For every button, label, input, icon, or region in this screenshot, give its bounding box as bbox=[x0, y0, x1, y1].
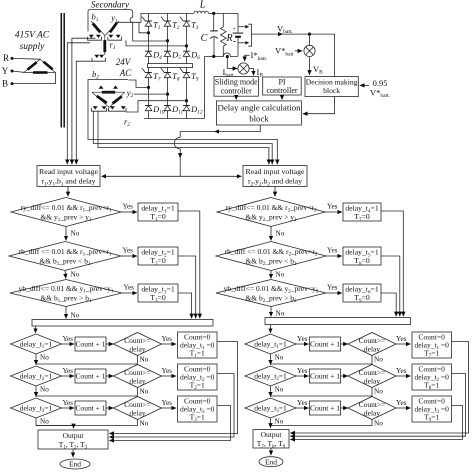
svg-text:No: No bbox=[276, 310, 285, 318]
polarity marks group2 top bbox=[99, 86, 119, 89]
winding r1 bar bbox=[103, 40, 106, 52]
svg-text:Yes: Yes bbox=[327, 247, 338, 255]
wire count no return bbox=[271, 419, 373, 426]
wire row2 to row3 bbox=[35, 386, 37, 397]
svg-text:Count + 1: Count + 1 bbox=[75, 371, 105, 380]
svg-text:Output: Output bbox=[261, 430, 283, 439]
terminator end right bbox=[259, 457, 283, 467]
winding group 1 outline wire bbox=[88, 10, 133, 32]
process delay_t1 bbox=[138, 203, 178, 221]
process count reset bbox=[178, 332, 218, 358]
svg-text:R: R bbox=[225, 33, 232, 44]
junction dot Vbatt bbox=[308, 33, 311, 36]
wire IB output bbox=[249, 69, 253, 76]
wire reset3 feedback bbox=[109, 406, 230, 441]
decision count>=delay bbox=[114, 333, 162, 356]
winding y1 wire bbox=[105, 21, 119, 36]
svg-text:Yes: Yes bbox=[123, 203, 134, 211]
primary winding bar left bbox=[28, 62, 37, 69]
svg-text:Yes: Yes bbox=[63, 367, 74, 375]
wire yes to reset bbox=[396, 375, 411, 377]
terminator end left bbox=[60, 459, 90, 469]
junction dot DC+ bbox=[212, 12, 215, 15]
wire delay_t1 return bbox=[178, 211, 200, 318]
wire row3 to output bbox=[36, 418, 74, 428]
svg-text:No: No bbox=[140, 356, 149, 364]
wire D12 lead bbox=[186, 111, 188, 119]
wire bus after L bbox=[208, 12, 238, 14]
svg-text:supply: supply bbox=[20, 42, 46, 52]
wire yes 2 bbox=[121, 255, 137, 257]
wire rect to row1 right bbox=[270, 325, 272, 333]
wire T2-D5 bbox=[167, 26, 169, 51]
decision delay_t3 bbox=[11, 398, 62, 418]
wire yes to reset bbox=[162, 343, 177, 345]
terminal box group2 right bbox=[109, 108, 127, 111]
process count reset bbox=[412, 364, 452, 390]
svg-text:Count + 1: Count + 1 bbox=[310, 339, 340, 348]
junction dot phase1 top bbox=[147, 31, 150, 34]
wire yes to reset bbox=[162, 375, 177, 377]
svg-text:Read input voltage: Read input voltage bbox=[246, 167, 305, 176]
wire rect to row1 bbox=[35, 326, 37, 333]
battery Vbatt bbox=[233, 13, 244, 56]
wire T9-D12 bbox=[186, 78, 188, 106]
wire I*batt arrow bbox=[245, 55, 250, 61]
winding b1 bar bbox=[93, 23, 101, 32]
wire read2 to d1 bbox=[274, 187, 276, 197]
wire no r3 bbox=[270, 307, 272, 317]
battery connector stubs bbox=[238, 27, 245, 43]
process count+1 bbox=[75, 369, 106, 383]
wire no 3 bbox=[65, 307, 67, 319]
svg-text:Yes: Yes bbox=[396, 367, 407, 375]
wire D6 lead bbox=[186, 56, 188, 63]
process read input voltage 1 bbox=[37, 166, 100, 187]
wire row1 to row2 bbox=[35, 354, 37, 365]
svg-text:No: No bbox=[140, 388, 149, 396]
thyristor T7 bbox=[142, 68, 152, 78]
wire count no return bbox=[36, 419, 138, 426]
wire read1 to d1 bbox=[67, 187, 69, 197]
svg-text:Yes: Yes bbox=[123, 247, 134, 255]
winding group2 bar left bbox=[97, 96, 107, 103]
thyristor T8 bbox=[161, 68, 171, 78]
diode D6 bbox=[183, 51, 190, 56]
svg-text:Yes: Yes bbox=[297, 399, 308, 407]
wire row1 to row2 right bbox=[270, 354, 272, 365]
wire sense r1 bbox=[67, 43, 90, 164]
process count+1 bbox=[310, 369, 341, 383]
wire count no return bbox=[36, 355, 138, 364]
svg-text:R: R bbox=[3, 53, 9, 63]
svg-text:End: End bbox=[69, 460, 81, 469]
svg-text:delay: delay bbox=[129, 408, 145, 417]
svg-text:No: No bbox=[40, 386, 49, 394]
wire to count decision bbox=[341, 407, 348, 409]
wire Y phase bbox=[12, 71, 24, 72]
thyristor T9 bbox=[180, 68, 190, 78]
wire b2 to T7 node bbox=[129, 80, 149, 87]
wire count no return bbox=[271, 355, 373, 364]
svg-text:Yes: Yes bbox=[327, 284, 338, 292]
wire reset4 feedback bbox=[290, 342, 468, 434]
svg-text:Count + 1: Count + 1 bbox=[310, 403, 340, 412]
process count reset bbox=[178, 396, 218, 422]
svg-text:Yes: Yes bbox=[396, 335, 407, 343]
wire delay_t2 return bbox=[178, 256, 196, 318]
process count+1 bbox=[310, 401, 341, 415]
svg-text:delay: delay bbox=[129, 344, 145, 353]
wire Vbatt to multiplier bbox=[309, 34, 311, 45]
wire no 2 bbox=[64, 271, 67, 279]
svg-text:Read input voltage: Read input voltage bbox=[39, 167, 98, 176]
wire row3 to output right bbox=[270, 418, 272, 428]
wire D11 lead bbox=[167, 111, 169, 119]
svg-text:delay: delay bbox=[364, 344, 380, 353]
process count reset bbox=[412, 396, 452, 422]
process delay_t6 bbox=[343, 284, 381, 302]
svg-text:delay: delay bbox=[129, 376, 145, 385]
svg-text:Decision making: Decision making bbox=[306, 78, 358, 87]
wire sense y1 bbox=[72, 38, 96, 164]
wire D5 lead bbox=[167, 56, 169, 63]
svg-text:block: block bbox=[323, 86, 340, 95]
svg-text:B: B bbox=[2, 79, 8, 89]
svg-text:No: No bbox=[40, 418, 49, 426]
wire count no return bbox=[271, 387, 373, 396]
svg-text:End: End bbox=[265, 457, 277, 466]
wire no 1 bbox=[65, 227, 67, 241]
inductor L bbox=[194, 11, 208, 13]
process count+1 bbox=[310, 337, 341, 351]
collector bar right bbox=[265, 318, 411, 325]
terminal box r1 bbox=[92, 58, 106, 61]
wire sense bundle b2 bbox=[98, 111, 269, 164]
wire T8-D11 bbox=[167, 78, 169, 106]
process count reset bbox=[412, 332, 452, 358]
wire delay_t4 return bbox=[381, 211, 403, 316]
wire bottom DC bus bbox=[144, 118, 205, 120]
wire output to end bbox=[72, 449, 74, 457]
wire T1 lead bbox=[148, 13, 150, 21]
capacitor C bbox=[210, 13, 218, 56]
process delay_t5 bbox=[343, 247, 381, 265]
terminal box group1 left bbox=[88, 37, 102, 40]
wire R phase bbox=[12, 57, 40, 60]
polarity marks group1 bbox=[89, 35, 121, 38]
svg-text:No: No bbox=[140, 420, 149, 428]
decision rb_diff 2 bbox=[216, 242, 326, 271]
svg-text:block: block bbox=[249, 113, 269, 123]
wire load bottom rail bbox=[205, 53, 239, 57]
svg-text:Yes: Yes bbox=[162, 367, 173, 375]
junction dot load bottom bbox=[212, 55, 215, 58]
wire r2 to T9 node bbox=[126, 101, 187, 112]
decision delay_t1 bbox=[245, 334, 296, 354]
polarity marks r1 bbox=[94, 55, 104, 58]
wire no r1 bbox=[270, 227, 272, 241]
process count+1 bbox=[75, 401, 106, 415]
wire output to end right bbox=[270, 448, 272, 455]
wire yes r1 bbox=[325, 211, 342, 213]
diode D10 bbox=[145, 106, 152, 111]
decision count>=delay bbox=[348, 397, 396, 420]
collector bar left bbox=[32, 320, 213, 327]
process output right bbox=[253, 430, 289, 449]
wire T8 lead bbox=[167, 68, 169, 73]
wire Vbatt output bbox=[251, 33, 282, 35]
svg-text:AC: AC bbox=[119, 68, 132, 78]
svg-text:No: No bbox=[275, 354, 284, 362]
bus bar rectangle bbox=[148, 64, 193, 68]
svg-text:+: + bbox=[232, 26, 236, 33]
wire yes bbox=[62, 343, 75, 345]
svg-text:Count + 1: Count + 1 bbox=[75, 403, 105, 412]
wire delay to read boxes bbox=[179, 149, 181, 158]
svg-text:Yes: Yes bbox=[297, 367, 308, 375]
wire V*batt arrow bbox=[295, 50, 303, 52]
process output left bbox=[38, 430, 108, 449]
wire sliding to delay bbox=[235, 96, 237, 99]
multiplier circle I bbox=[238, 63, 249, 74]
diode D11 bbox=[164, 106, 171, 111]
winding group2 wires bbox=[92, 92, 125, 107]
wire yes 1 bbox=[121, 211, 137, 213]
decision delay_t3 bbox=[245, 398, 296, 418]
wire to count decision bbox=[106, 343, 113, 345]
wire yes to reset bbox=[162, 407, 177, 409]
decision count>=delay bbox=[114, 397, 162, 420]
process delay_t2 bbox=[138, 247, 178, 265]
svg-text:Yes: Yes bbox=[162, 399, 173, 407]
wire delay to right read bbox=[180, 175, 241, 177]
decision yb_diff 2 bbox=[216, 280, 326, 307]
wire T7 lead bbox=[148, 68, 150, 73]
wire T2 lead bbox=[167, 13, 169, 21]
svg-text:Output: Output bbox=[63, 431, 85, 440]
junction dot phase1 bottom bbox=[147, 86, 150, 89]
block PI controller bbox=[263, 77, 302, 95]
wire D10 lead bbox=[148, 111, 150, 119]
svg-text:No: No bbox=[71, 312, 80, 320]
svg-text:Count + 1: Count + 1 bbox=[75, 339, 105, 348]
diode D12 bbox=[183, 106, 190, 111]
wire yes r2 bbox=[326, 255, 342, 257]
svg-text:415V AC: 415V AC bbox=[15, 31, 50, 41]
winding y1 bar bbox=[110, 23, 117, 33]
wire count no return bbox=[36, 387, 138, 396]
svg-text:C: C bbox=[201, 33, 208, 44]
wire yes to reset bbox=[396, 407, 411, 409]
wire to count decision bbox=[341, 343, 348, 345]
block delay angle calculation bbox=[216, 101, 301, 125]
svg-text:No: No bbox=[374, 356, 383, 364]
wire r1 to T3 node bbox=[126, 40, 187, 46]
svg-text:Y: Y bbox=[2, 66, 9, 76]
wire to count decision bbox=[106, 407, 113, 409]
wire reset2 feedback bbox=[109, 374, 234, 438]
wire yes to reset bbox=[396, 343, 411, 345]
svg-text:Yes: Yes bbox=[396, 399, 407, 407]
wire yes 3 bbox=[122, 292, 137, 294]
wire yes bbox=[296, 343, 309, 345]
decision rb_diff 1 bbox=[9, 242, 121, 271]
wire delay_t3 return bbox=[178, 293, 192, 318]
block decision making bbox=[305, 77, 358, 97]
svg-text:24V: 24V bbox=[116, 57, 132, 67]
svg-text:Yes: Yes bbox=[63, 335, 74, 343]
wire reset1 feedback bbox=[109, 342, 237, 434]
terminal box group1 right bbox=[108, 37, 122, 40]
wire T1-D4 bbox=[148, 26, 150, 51]
thyristor T3 bbox=[180, 17, 190, 27]
decision delay_t2 bbox=[11, 366, 62, 386]
svg-text:No: No bbox=[40, 354, 49, 362]
battery minus mark bbox=[234, 41, 236, 43]
svg-text:Yes: Yes bbox=[297, 335, 308, 343]
wire B phase bbox=[12, 73, 55, 84]
winding b1 wire bbox=[91, 21, 105, 36]
svg-text:delay: delay bbox=[364, 408, 380, 417]
polarity marks group2 bottom bbox=[93, 106, 126, 109]
svg-text:No: No bbox=[71, 230, 80, 238]
svg-text:Secondary: Secondary bbox=[91, 0, 129, 10]
svg-text:No: No bbox=[276, 230, 285, 238]
thyristor T1 bbox=[142, 17, 152, 27]
decision count>=delay bbox=[114, 365, 162, 388]
process read input voltage 2 bbox=[243, 166, 307, 187]
wire y2 to T8 node bbox=[134, 93, 168, 95]
diode D4 bbox=[145, 51, 152, 56]
decision ry_diff 1 bbox=[11, 198, 121, 227]
wire sense b1 bbox=[76, 61, 92, 164]
process count reset bbox=[178, 364, 218, 390]
battery connector bracket bbox=[248, 24, 251, 46]
wire sense bundle y2 bbox=[93, 111, 272, 164]
resistor R bbox=[221, 13, 227, 56]
primary winding bar bottom bbox=[33, 71, 48, 74]
wire yes bbox=[296, 407, 309, 409]
wire D4 lead bbox=[148, 56, 150, 63]
wire 0.95V*batt arrow bbox=[360, 84, 369, 86]
svg-text:controller: controller bbox=[266, 86, 297, 95]
process delay_t4 bbox=[343, 203, 381, 221]
wire Ibatt arrow bbox=[227, 57, 237, 69]
battery connector arrows bbox=[245, 25, 249, 45]
wire top DC bus bbox=[141, 13, 194, 22]
decision count>=delay bbox=[348, 365, 396, 388]
multiplier circle V bbox=[304, 45, 315, 56]
svg-text:Sliding mode: Sliding mode bbox=[215, 78, 258, 87]
decision ry_diff 2 bbox=[217, 198, 325, 227]
junction dot phase3 bottom bbox=[185, 99, 188, 102]
winding group2 bar right bbox=[113, 96, 122, 103]
svg-text:0.95: 0.95 bbox=[373, 78, 388, 88]
wire T3 lead bbox=[186, 13, 188, 21]
junction dot phase3 top bbox=[185, 44, 188, 47]
primary winding bar right bbox=[44, 62, 53, 70]
svg-text:No: No bbox=[71, 271, 80, 279]
wire no r2 bbox=[270, 271, 272, 279]
wire PI to delay bbox=[281, 95, 283, 100]
process delay_t3 bbox=[138, 284, 178, 302]
wire yes bbox=[62, 407, 75, 409]
wire yes r3 bbox=[326, 292, 342, 294]
wire DC- rail bbox=[204, 56, 206, 118]
wire T9 lead bbox=[186, 68, 188, 73]
block sliding mode controller bbox=[214, 77, 259, 97]
wire row2 to row3 right bbox=[270, 386, 272, 397]
diode D5 bbox=[164, 51, 171, 56]
junction dot Ibatt tap bbox=[226, 55, 229, 58]
wire delay_t5 return bbox=[381, 256, 400, 316]
thyristor T2 bbox=[161, 17, 171, 27]
wire sense bundle r2 bbox=[88, 80, 277, 165]
wire yes bbox=[62, 375, 75, 377]
svg-text:Yes: Yes bbox=[63, 399, 74, 407]
wire reset6 feedback bbox=[290, 406, 462, 440]
process count+1 bbox=[75, 337, 106, 351]
svg-text:No: No bbox=[374, 388, 383, 396]
svg-text:Yes: Yes bbox=[327, 203, 338, 211]
svg-text:No: No bbox=[275, 386, 284, 394]
wire b1 to T2 node bbox=[130, 17, 167, 41]
wire delay to left read bbox=[102, 175, 181, 177]
svg-text:delay: delay bbox=[364, 376, 380, 385]
wire hop over bundle bbox=[174, 137, 180, 149]
transformer core bbox=[61, 13, 64, 127]
svg-text:Count + 1: Count + 1 bbox=[310, 371, 340, 380]
svg-text:No: No bbox=[276, 271, 285, 279]
wire T7-D10 bbox=[148, 78, 150, 106]
wire delay output down bbox=[215, 125, 261, 132]
svg-text:Yes: Yes bbox=[162, 335, 173, 343]
svg-text:Delay angle calculation: Delay angle calculation bbox=[217, 103, 301, 113]
wire yes bbox=[296, 375, 309, 377]
svg-text:L: L bbox=[199, 0, 206, 11]
wire delay_t6 return bbox=[381, 293, 396, 316]
svg-text:No: No bbox=[374, 420, 383, 428]
svg-text:controller: controller bbox=[221, 87, 252, 96]
wire VB output bbox=[309, 57, 311, 75]
wire reset5 feedback bbox=[290, 374, 465, 437]
wire to count decision bbox=[341, 375, 348, 377]
junction dot phase2 bottom bbox=[166, 93, 169, 96]
delta primary winding bbox=[24, 59, 56, 72]
wire T3-D6 bbox=[186, 26, 188, 51]
winding r1 wire bbox=[104, 36, 106, 56]
wire to count decision bbox=[106, 375, 113, 377]
svg-text:No: No bbox=[275, 418, 284, 426]
junction dot phase2 top bbox=[166, 39, 169, 42]
wire y1 to T1 node bbox=[117, 21, 141, 23]
winding group2 top bar bbox=[102, 91, 115, 94]
svg-text:Yes: Yes bbox=[124, 284, 135, 292]
decision yb_diff 1 bbox=[10, 280, 122, 307]
decision count>=delay bbox=[348, 333, 396, 356]
wire decision to delay block bbox=[303, 97, 335, 114]
decision delay_t2 bbox=[245, 366, 296, 386]
decision delay_t1 bbox=[11, 334, 62, 354]
terminal box group2 left bbox=[92, 108, 107, 111]
